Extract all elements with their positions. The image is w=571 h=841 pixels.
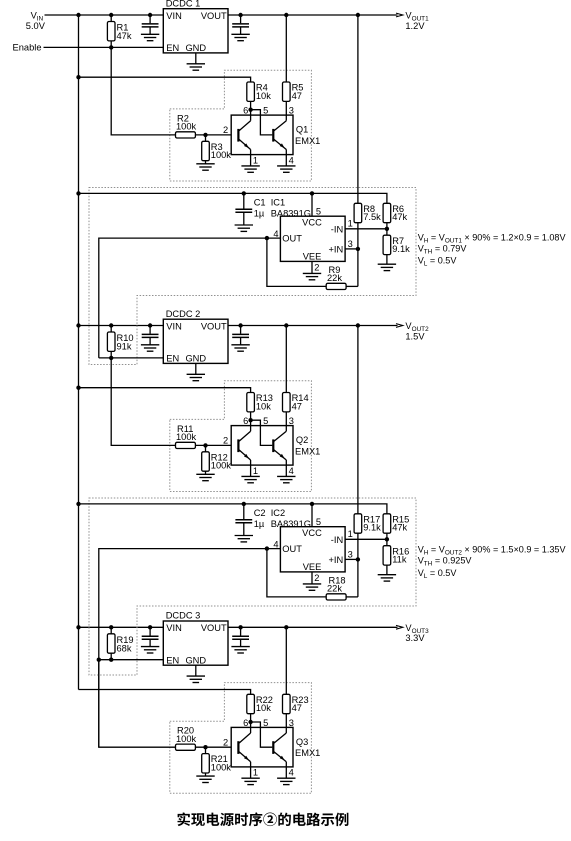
wire +IN pin 3 — [345, 558, 358, 560]
svg-text:4: 4 — [289, 466, 294, 476]
dashed box Q2 level-shift circuit — [170, 381, 312, 492]
DCDC 1 block — [163, 9, 228, 53]
svg-text:3.3V: 3.3V — [405, 633, 425, 643]
svg-text:6: 6 — [243, 106, 248, 116]
junction VOUT2 taps — [238, 323, 242, 327]
svg-text:2: 2 — [223, 436, 228, 446]
wire pull-up feed — [79, 77, 251, 82]
wire EN drive — [99, 357, 164, 359]
resistor R8 7.5k — [354, 203, 362, 222]
capacitor output bypass DCDC 1 — [240, 15, 242, 23]
svg-text:3: 3 — [289, 416, 294, 426]
svg-text:1µ: 1µ — [254, 208, 265, 218]
ground base divider — [196, 473, 214, 475]
capacitor input bypass DCDC 1 — [149, 15, 151, 23]
ground base divider — [196, 163, 214, 165]
svg-text:5.0V: 5.0V — [26, 21, 46, 31]
svg-text:2: 2 — [223, 738, 228, 748]
svg-text:+IN: +IN — [328, 244, 343, 254]
capacitor input bypass DCDC 3 — [149, 627, 151, 635]
svg-text:1: 1 — [348, 529, 353, 539]
svg-text:VOUT: VOUT — [201, 623, 227, 633]
ground IC1 VEE pin 2 — [311, 261, 313, 273]
svg-text:1: 1 — [253, 466, 258, 476]
svg-text:Enable: Enable — [13, 42, 42, 52]
resistor R13 10k — [247, 393, 255, 412]
svg-text:100k: 100k — [211, 762, 232, 772]
wire VIN bus vertical — [78, 15, 80, 690]
wire base drive — [111, 358, 175, 446]
node VOUT2 arrow — [396, 324, 403, 328]
wire pin3 to resistor — [285, 714, 287, 728]
svg-text:VCC: VCC — [302, 217, 322, 227]
wire VOUT2 rail — [228, 325, 398, 327]
wire base drive — [111, 47, 175, 134]
junction IC2 supply taps — [242, 502, 246, 506]
junction base divider — [203, 133, 207, 137]
svg-text:68k: 68k — [117, 644, 132, 654]
wire collector pull to VOUT — [285, 15, 287, 82]
svg-text:VEE: VEE — [303, 251, 322, 261]
wire pin3 to resistor — [285, 412, 287, 426]
junction -IN divider — [385, 227, 389, 231]
wire IC1 supply rail — [79, 193, 387, 203]
wire VOUT1 rail — [228, 14, 398, 16]
junction R10 ends — [109, 323, 113, 327]
svg-text:47k: 47k — [117, 31, 132, 41]
wire Enable to EN pin — [44, 46, 164, 48]
ground Q3 pin1 — [250, 767, 252, 778]
DCDC 2 block — [163, 319, 228, 363]
junction base divider — [203, 745, 207, 749]
svg-text:Q2: Q2 — [296, 435, 308, 445]
resistor R5 47 — [283, 82, 291, 101]
svg-text:3: 3 — [289, 718, 294, 728]
wire IC1 VCC pin 5 — [311, 193, 313, 216]
svg-text:OUT: OUT — [282, 544, 302, 554]
ground DCDC 2 GND pin — [195, 363, 197, 374]
wire VOUT3 rail — [228, 626, 398, 628]
resistor R18 22k — [267, 549, 326, 597]
caption text — [178, 812, 349, 826]
svg-text:IC1: IC1 — [271, 198, 285, 208]
ground DCDC 1 GND pin — [195, 53, 197, 64]
wire +IN pin 3 — [345, 248, 358, 250]
svg-text:Q3: Q3 — [296, 737, 308, 747]
svg-text:EN: EN — [166, 354, 179, 364]
svg-text:VEE: VEE — [303, 562, 322, 572]
junction IC1 supply taps — [242, 191, 246, 195]
svg-text:1.2V: 1.2V — [405, 21, 425, 31]
wire pin6 to pin5 jog — [251, 110, 273, 135]
svg-text:10k: 10k — [256, 703, 271, 713]
resistor R4 10k — [247, 82, 255, 101]
svg-text:47: 47 — [292, 401, 302, 411]
svg-text:-IN: -IN — [331, 535, 343, 545]
svg-text:VIN: VIN — [166, 11, 182, 21]
svg-text:GND: GND — [185, 655, 206, 665]
junction OUT feedback — [265, 546, 269, 550]
wire pull-up feed — [79, 388, 251, 393]
wire divider mid — [386, 533, 388, 546]
resistor R15 47k — [383, 514, 391, 533]
svg-text:3: 3 — [348, 550, 353, 560]
wire R to pin6 — [250, 714, 252, 728]
svg-text:47: 47 — [292, 703, 302, 713]
wire VOUT2 sense vertical — [357, 326, 359, 514]
resistor R11 100k — [176, 442, 196, 448]
capacitor output bypass DCDC 3 — [240, 627, 242, 635]
junction VOUT1 taps — [238, 13, 242, 17]
ground Q2 pin4 — [285, 465, 287, 476]
svg-text:4: 4 — [289, 768, 294, 778]
wire base drive — [99, 660, 176, 748]
svg-text:EN: EN — [166, 655, 179, 665]
svg-text:100k: 100k — [211, 150, 232, 160]
svg-text:IC2: IC2 — [271, 508, 285, 518]
svg-text:4: 4 — [273, 229, 278, 239]
resistor R7 9.1k — [383, 235, 391, 254]
capacitor C1 1µ — [243, 193, 245, 208]
ground divider — [378, 263, 396, 265]
svg-text:6: 6 — [243, 718, 248, 728]
svg-text:100k: 100k — [176, 432, 197, 442]
resistor R9 22k — [267, 238, 326, 286]
wire OUT pin 4 — [99, 549, 281, 748]
ground Q1 pin4 — [285, 155, 287, 166]
wire base resistor to pin2 — [195, 134, 231, 136]
svg-text:9.1k: 9.1k — [392, 244, 410, 254]
svg-text:1: 1 — [253, 768, 258, 778]
wire VIN rail stage3 — [79, 626, 164, 628]
junction pin6 node — [248, 418, 252, 422]
junction base divider — [203, 443, 207, 447]
svg-text:1µ: 1µ — [254, 519, 265, 529]
ground Q1 pin1 — [250, 155, 252, 166]
capacitor C2 1µ — [243, 504, 245, 519]
svg-text:1: 1 — [253, 155, 258, 165]
ground IC2 VEE pin 2 — [311, 572, 313, 584]
wire pin6 to pin5 jog — [251, 420, 273, 445]
op-amp IC1 BA8391G comparator — [280, 216, 345, 261]
svg-text:7.5k: 7.5k — [363, 212, 381, 222]
svg-text:6: 6 — [243, 416, 248, 426]
junction -IN divider — [385, 537, 389, 541]
resistor R10 91k — [110, 326, 112, 333]
resistor R3 100k — [205, 135, 207, 141]
transistor Q1 EMX1 dual NPN — [231, 115, 293, 155]
wire R to pin6 — [250, 412, 252, 426]
junction pin6 node — [248, 108, 252, 112]
transistor Q3 EMX1 dual NPN — [231, 727, 293, 767]
capacitor output bypass DCDC 2 — [240, 326, 242, 334]
wire pin3 to resistor — [285, 101, 287, 115]
wire pull-up feed — [79, 690, 251, 695]
dashed box Q3 level-shift circuit — [170, 683, 312, 794]
wire R to pin6 — [250, 101, 252, 115]
wire base resistor to pin2 — [195, 444, 231, 446]
wire VOUT1 sense vertical — [357, 15, 359, 203]
svg-text:GND: GND — [185, 43, 206, 53]
svg-text:EMX1: EMX1 — [295, 748, 320, 758]
svg-text:2: 2 — [314, 263, 319, 273]
svg-text:47: 47 — [292, 91, 302, 101]
svg-text:VOUT: VOUT — [201, 321, 227, 331]
svg-text:1.5V: 1.5V — [405, 331, 425, 341]
svg-text:DCDC 3: DCDC 3 — [166, 611, 201, 621]
wire base resistor to pin2 — [195, 746, 231, 748]
wire sense divider vertical — [357, 223, 359, 287]
ground base divider — [196, 775, 214, 777]
svg-text:-IN: -IN — [331, 224, 343, 234]
junction OUT feedback — [265, 236, 269, 240]
ground Q2 pin1 — [250, 465, 252, 476]
wire VIN rail stage1 — [45, 14, 164, 16]
dashed box IC2 supervisor circuit — [89, 498, 416, 675]
wire divider mid — [386, 223, 388, 236]
dashed box IC1 supervisor circuit — [89, 188, 416, 365]
resistor R21 100k — [205, 747, 207, 753]
svg-text:EMX1: EMX1 — [295, 136, 320, 146]
resistor R6 47k — [383, 203, 391, 222]
dashed box Q1 level-shift circuit — [170, 70, 312, 181]
resistor R14 47 — [283, 393, 291, 412]
wire pin6 to pin5 jog — [251, 722, 273, 747]
node VOUT1 arrow — [396, 13, 403, 17]
wire sense divider vertical — [357, 533, 359, 597]
svg-text:22k: 22k — [327, 584, 342, 594]
svg-text:VIN: VIN — [166, 321, 182, 331]
capacitor input bypass DCDC 2 — [149, 326, 151, 334]
wire OUT pin 4 — [99, 238, 281, 358]
junction pin6 node — [248, 720, 252, 724]
svg-text:5: 5 — [316, 207, 321, 217]
svg-text:91k: 91k — [117, 342, 132, 352]
svg-text:C1: C1 — [254, 198, 266, 208]
svg-text:47k: 47k — [392, 212, 407, 222]
svg-text:5: 5 — [263, 718, 268, 728]
junction VOUT3 taps — [238, 625, 242, 629]
node VOUT3 arrow — [396, 625, 403, 629]
wire -IN pin 1 — [345, 228, 387, 230]
svg-text:Q1: Q1 — [296, 125, 308, 135]
svg-text:DCDC 1: DCDC 1 — [166, 0, 201, 8]
resistor R19 68k — [110, 627, 112, 634]
wire IC2 VCC pin 5 — [311, 504, 313, 527]
svg-text:10k: 10k — [256, 91, 271, 101]
svg-text:GND: GND — [185, 354, 206, 364]
svg-text:100k: 100k — [211, 461, 232, 471]
junction VIN bus taps — [76, 13, 80, 17]
svg-text:EMX1: EMX1 — [295, 446, 320, 456]
ground DCDC 3 GND pin — [195, 665, 197, 676]
svg-text:OUT: OUT — [282, 234, 302, 244]
ground Q3 pin4 — [285, 767, 287, 778]
wire VIN rail stage2 — [79, 325, 164, 327]
junction +IN node — [356, 557, 360, 561]
svg-text:VCC: VCC — [302, 528, 322, 538]
resistor R23 47 — [283, 694, 291, 713]
svg-text:VOUT: VOUT — [201, 11, 227, 21]
resistor R1 47k — [110, 15, 112, 22]
svg-text:3: 3 — [348, 239, 353, 249]
junction OUT to EN tap — [97, 658, 101, 662]
svg-text:C2: C2 — [254, 508, 266, 518]
wire collector pull to VOUT — [285, 627, 287, 694]
svg-text:47k: 47k — [392, 523, 407, 533]
svg-text:5: 5 — [316, 517, 321, 527]
wire EN drive — [99, 659, 164, 661]
wire collector pull to VOUT — [285, 326, 287, 393]
svg-text:100k: 100k — [176, 734, 197, 744]
svg-text:9.1k: 9.1k — [363, 523, 381, 533]
resistor R20 100k — [176, 744, 196, 750]
svg-text:+IN: +IN — [328, 555, 343, 565]
svg-text:VIN: VIN — [166, 623, 182, 633]
resistor R17 9.1k — [354, 514, 362, 533]
transistor Q2 EMX1 dual NPN — [231, 426, 293, 466]
svg-text:11k: 11k — [392, 555, 407, 565]
svg-text:4: 4 — [289, 155, 294, 165]
junction +IN node — [356, 247, 360, 251]
svg-text:100k: 100k — [176, 122, 197, 132]
op-amp IC2 BA8391G comparator — [280, 527, 345, 572]
junction R19 ends — [109, 625, 113, 629]
svg-text:4: 4 — [273, 539, 278, 549]
ground divider — [378, 574, 396, 576]
svg-text:22k: 22k — [327, 273, 342, 283]
svg-text:DCDC 2: DCDC 2 — [166, 309, 201, 319]
svg-text:1: 1 — [348, 218, 353, 228]
resistor R2 100k — [176, 132, 196, 138]
wire IC2 supply rail — [79, 504, 387, 514]
svg-text:5: 5 — [263, 106, 268, 116]
junction R1 ends — [109, 13, 113, 17]
resistor R12 100k — [205, 445, 207, 451]
svg-text:5: 5 — [263, 416, 268, 426]
svg-text:10k: 10k — [256, 401, 271, 411]
DCDC 3 block — [163, 621, 228, 665]
resistor R16 11k — [383, 546, 391, 565]
resistor R22 10k — [247, 694, 255, 713]
svg-text:EN: EN — [166, 43, 179, 53]
svg-text:2: 2 — [223, 125, 228, 135]
svg-text:2: 2 — [314, 573, 319, 583]
svg-text:3: 3 — [289, 106, 294, 116]
wire -IN pin 1 — [345, 538, 387, 540]
